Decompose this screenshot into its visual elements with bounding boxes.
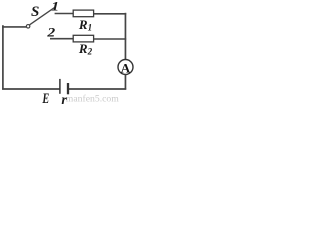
- wire left vertical: [2, 25, 4, 89]
- wire bottom left segment: [2, 88, 59, 90]
- resistor R2: [73, 35, 93, 42]
- svg-text:r: r: [61, 93, 67, 104]
- battery E short plate: [67, 83, 69, 94]
- wire top-left horizontal to switch pivot: [2, 26, 26, 28]
- wire right rail lower: [124, 75, 126, 90]
- wire contact 1 to R1: [55, 13, 74, 15]
- wire R2 to right rail: [94, 38, 127, 40]
- svg-text:2: 2: [46, 26, 56, 40]
- svg-text:1: 1: [51, 0, 59, 13]
- switch S blade: [30, 8, 55, 25]
- switch S pivot: [26, 25, 30, 29]
- wire right rail upper: [124, 13, 126, 60]
- wire contact 2 to R2: [50, 38, 74, 40]
- svg-text:manfen5.com: manfen5.com: [66, 94, 119, 105]
- svg-text:E: E: [42, 91, 50, 104]
- resistor R1: [73, 10, 93, 17]
- svg-text:R2: R2: [78, 41, 93, 57]
- wire R1 to right rail: [94, 13, 127, 15]
- battery E long plate: [59, 79, 61, 94]
- wire bottom right segment: [69, 88, 126, 90]
- ammeter A: [118, 60, 133, 75]
- svg-text:R1: R1: [78, 17, 92, 33]
- svg-text:A: A: [121, 60, 131, 75]
- svg-text:S: S: [31, 4, 39, 20]
